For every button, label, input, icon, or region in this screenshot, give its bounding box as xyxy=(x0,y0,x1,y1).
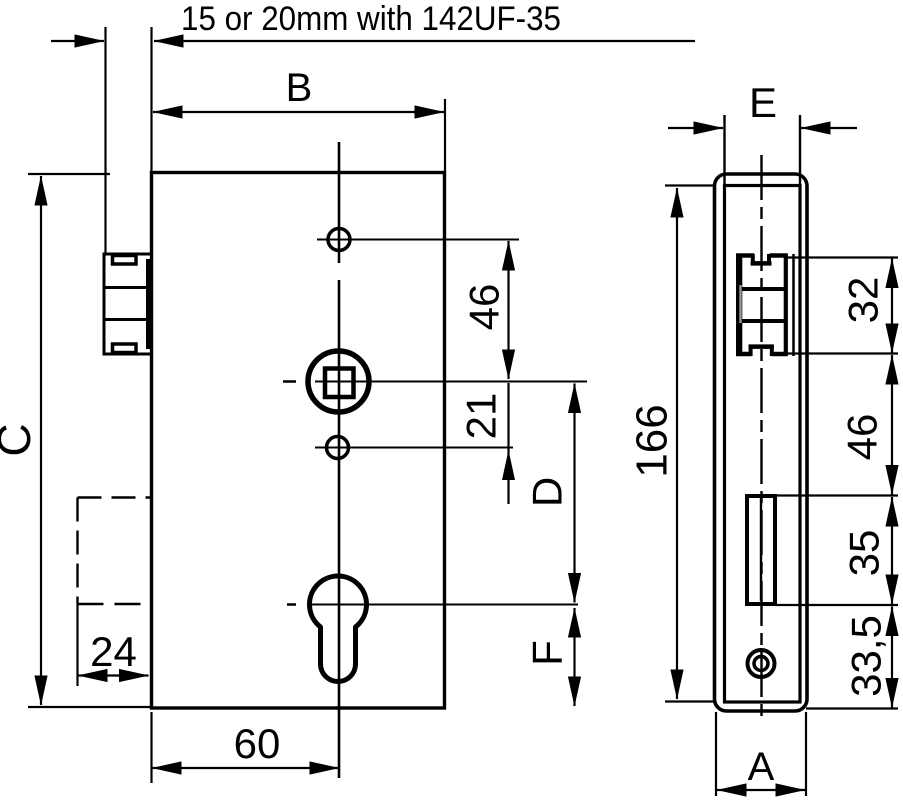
dimension A extension left xyxy=(715,712,717,796)
dimension 46/35 shared extension xyxy=(775,494,898,496)
dimension A extension right xyxy=(805,712,807,796)
svg-text:D: D xyxy=(524,477,571,507)
dimension C top extension line xyxy=(28,173,110,175)
cylinder centre line dash xyxy=(287,603,296,606)
svg-text:A: A xyxy=(748,745,775,789)
svg-text:15 or 20mm with 142UF-35: 15 or 20mm with 142UF-35 xyxy=(181,0,561,38)
follower centre line xyxy=(315,381,587,383)
dimension 166 line xyxy=(676,188,678,699)
follower circle xyxy=(308,351,369,412)
slot centre line xyxy=(760,496,762,601)
cylinder slot side view xyxy=(747,496,775,604)
latch bolt bottom tab xyxy=(113,344,137,353)
latch bolt divider lines xyxy=(104,286,152,289)
dimension C bottom extension line xyxy=(28,706,150,708)
dimension 33,5 bottom extension xyxy=(806,707,898,709)
dimension 35/33,5 shared extension xyxy=(775,604,898,606)
dimension 15/20 left arrow line xyxy=(51,40,104,42)
svg-text:C: C xyxy=(0,423,40,456)
svg-text:33,5: 33,5 xyxy=(843,615,890,697)
hidden detail dashed box bottom edge xyxy=(78,603,151,605)
hidden detail dashed box top edge xyxy=(78,496,151,498)
dimension 60 extension line left xyxy=(150,712,152,783)
svg-text:21: 21 xyxy=(458,393,505,440)
latch bolt top tab xyxy=(113,256,137,265)
side view centre line xyxy=(760,155,762,722)
dimension E right arrow xyxy=(801,127,857,129)
dimension 32 line xyxy=(891,259,893,354)
latch bolt front view outer xyxy=(104,254,152,354)
dimension A line xyxy=(717,789,805,791)
dimension 166 top extension xyxy=(665,184,716,186)
E extension line left xyxy=(723,115,725,186)
E extension line right xyxy=(799,115,801,186)
svg-text:F: F xyxy=(524,640,571,666)
hidden detail dashed box left edge xyxy=(76,498,78,605)
dimension B line xyxy=(153,111,444,113)
svg-text:46: 46 xyxy=(461,284,508,331)
svg-text:166: 166 xyxy=(627,404,676,477)
lock body front view xyxy=(152,173,445,709)
dimension 24 extension line xyxy=(76,604,78,686)
latch cutout left edge heavy xyxy=(736,254,742,357)
dimension 32/46 shared extension xyxy=(782,352,898,354)
extension line at faceplate front x=105 xyxy=(104,27,106,253)
latch cutout top edge segments xyxy=(736,253,788,258)
svg-text:32: 32 xyxy=(840,277,887,324)
follower square spindle hole xyxy=(325,369,354,398)
dimension 60 line xyxy=(152,767,339,769)
follower centre line dash xyxy=(283,380,296,383)
screw hole side view outer xyxy=(748,650,775,677)
latch cutout bottom edge segments xyxy=(736,352,788,357)
lower screw hole circle xyxy=(327,437,349,459)
dimension 33,5 line xyxy=(891,607,893,708)
top screw hole circle xyxy=(328,229,350,251)
svg-text:60: 60 xyxy=(234,720,281,767)
dimension 21 line xyxy=(507,383,509,504)
dimension 24 line xyxy=(78,674,149,676)
dimension 35 line xyxy=(891,497,893,604)
dimension E left arrow xyxy=(668,127,723,129)
latch cutout side view xyxy=(736,254,794,357)
svg-text:B: B xyxy=(286,66,313,110)
latch cutout top notch xyxy=(753,254,769,263)
latch divider lines xyxy=(742,287,784,291)
svg-text:24: 24 xyxy=(90,628,137,675)
cylinder centre line xyxy=(310,604,578,606)
dimension 15/20 right arrow line xyxy=(154,40,695,42)
latch bolt right shading strip xyxy=(146,259,152,349)
screw hole side view inner xyxy=(754,657,768,671)
dimension 46 side line xyxy=(891,355,893,495)
dimension 166 bottom extension xyxy=(665,700,716,702)
euro cylinder keyhole xyxy=(310,576,367,681)
svg-text:35: 35 xyxy=(841,530,888,577)
latch inner right line xyxy=(792,254,795,356)
latch cutout bottom notch xyxy=(751,347,772,356)
svg-text:46: 46 xyxy=(839,414,886,461)
dimension F line xyxy=(573,608,575,706)
top hole centre line xyxy=(317,239,519,241)
front view centre line lower xyxy=(338,280,341,778)
dimension 32 top extension xyxy=(787,256,898,258)
svg-text:E: E xyxy=(749,79,777,126)
dimension D line xyxy=(573,384,575,603)
dimension C line xyxy=(40,176,42,705)
extension line body right edge up xyxy=(444,99,446,172)
lock case behind faceplate xyxy=(725,186,801,703)
lower hole centre line xyxy=(315,447,513,449)
extension line at case front x=151 xyxy=(150,27,152,172)
dimension 21 arrowhead xyxy=(502,450,515,480)
latch cutout right edge xyxy=(784,254,788,357)
faceplate outline xyxy=(715,174,808,711)
dimension 46 front line xyxy=(507,241,509,379)
front view centre line upper xyxy=(338,142,341,263)
